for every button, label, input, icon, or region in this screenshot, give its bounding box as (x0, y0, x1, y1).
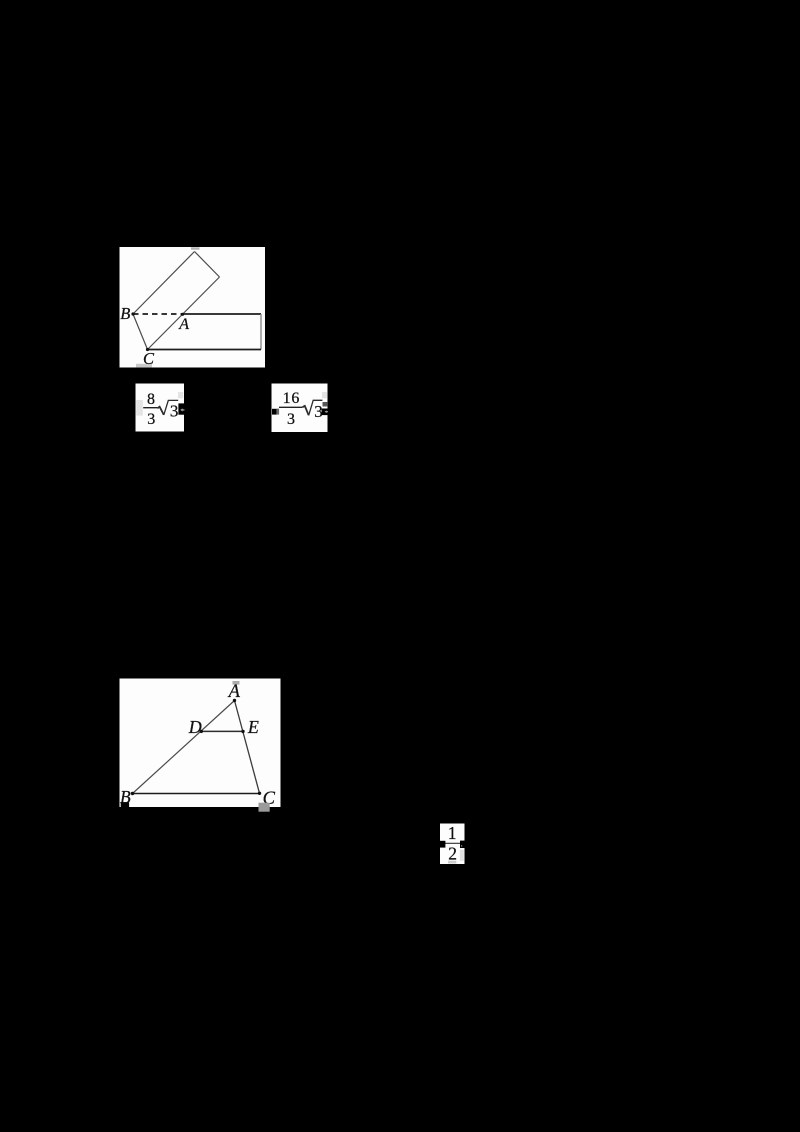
black selection notch left (272, 409, 277, 415)
black selection notch right (322, 409, 329, 416)
formula panel 16/3 sqrt3 (272, 384, 328, 433)
black selection notch left (440, 841, 446, 848)
wire: tilted strip left edge B-T (133, 252, 195, 315)
radical sign (303, 406, 309, 415)
node C dot (146, 348, 149, 351)
node E dot (241, 730, 244, 733)
svg-text:D: D (188, 717, 202, 737)
fraction bar (279, 406, 303, 408)
wire: side A-C (235, 701, 260, 794)
light gray artifact top right (322, 392, 327, 398)
formula panel 1/2 (440, 824, 465, 865)
fraction bar (143, 407, 157, 409)
tiny gray arrow in notch (180, 408, 184, 411)
dark gray edge of left notch (276, 409, 279, 415)
svg-text:A: A (227, 682, 241, 702)
gray tick artifact at top edge (191, 247, 200, 249)
node D dot (200, 730, 203, 733)
svg-text:E: E (247, 717, 259, 737)
figure 2 white panel (triangle) (120, 679, 281, 808)
svg-text:16: 16 (283, 390, 301, 407)
svg-text:8: 8 (147, 391, 155, 408)
white speck in right notch (461, 845, 462, 846)
node C dot (258, 792, 261, 795)
wire: segment D-E (201, 730, 243, 732)
wire: fold edge B-C (133, 314, 148, 350)
tiny gray arrow in right notch (325, 410, 328, 413)
light gray artifact left (136, 400, 143, 416)
gray square artifact below C (259, 803, 270, 812)
node B dot (131, 792, 134, 795)
svg-text:1: 1 (448, 823, 457, 843)
svg-text:A: A (178, 316, 189, 333)
node B dot (131, 312, 134, 315)
svg-text:3: 3 (147, 411, 155, 428)
svg-text:2: 2 (448, 843, 457, 863)
formula panel 8/3 sqrt3 (136, 384, 185, 432)
svg-text:3: 3 (287, 411, 295, 428)
wire: horizontal strip right edge (260, 314, 262, 350)
wire: base B-C (133, 793, 260, 795)
figure 1 white panel (120, 247, 266, 368)
wire: horizontal strip top edge from A (183, 313, 262, 315)
fraction bar (444, 842, 461, 844)
wire: tilted strip right edge R-C through A (148, 277, 220, 350)
black selection notch right (460, 841, 465, 848)
gray patch right (460, 850, 464, 861)
svg-text:C: C (143, 349, 155, 368)
black selection notch right (178, 403, 185, 414)
node A dot (233, 699, 236, 702)
gray patch bottom (448, 861, 456, 864)
gray tick above A (233, 681, 240, 685)
dark gray artifact right (323, 402, 328, 407)
gray patch artifact below C (136, 364, 152, 368)
node A dot (181, 313, 184, 316)
svg-text:3: 3 (314, 402, 323, 421)
radical sign (157, 407, 163, 415)
wire: side B-A (133, 701, 235, 794)
svg-text:3: 3 (170, 402, 179, 421)
black square artifact bottom left (121, 802, 129, 810)
svg-text:B: B (120, 304, 130, 323)
wire: horizontal strip bottom edge (148, 349, 262, 351)
wire: tilted strip top edge T-R (195, 252, 220, 278)
light gray artifact top right (178, 392, 183, 398)
wire: dashed segment B-A (133, 313, 183, 315)
